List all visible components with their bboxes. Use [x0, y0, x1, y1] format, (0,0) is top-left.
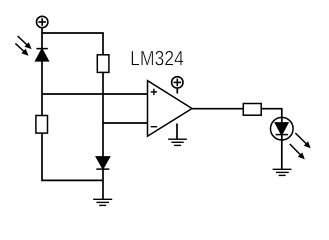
ground (op-amp) [168, 124, 187, 146]
wire R1 to bottom rail [42, 133, 103, 180]
op-amp - input marker [151, 126, 157, 128]
wire node A to op-amp + input [42, 93, 148, 95]
op-amp U1 LM324 [148, 81, 193, 137]
ground (below D2) [93, 199, 112, 205]
wire R3 to LED [261, 109, 282, 118]
resistor R3 [243, 104, 261, 116]
wire D2 to ground [102, 169, 104, 199]
wire from V+ to photodiode [41, 28, 43, 49]
resistor R2 [97, 55, 109, 73]
power supply V+ (left) [37, 16, 48, 27]
light arrow out of D3 (lower) [290, 144, 305, 159]
label LM324 [132, 51, 184, 66]
resistor R1 [36, 116, 48, 134]
diode D2 [96, 157, 109, 169]
power supply V+ (op-amp) [172, 77, 183, 94]
light arrow out of D3 (upper) [295, 133, 310, 148]
wire LED to ground [281, 140, 283, 169]
wire op-amp output to R3 [192, 108, 243, 110]
wire top rail to R2 [42, 33, 103, 55]
light arrow into D1 (lower) [15, 43, 28, 55]
LED D3 [271, 117, 294, 140]
photodiode D1 [36, 49, 48, 61]
light arrow into D1 (upper) [18, 36, 32, 49]
wire D1 to R1 [41, 61, 43, 116]
wire node B to op-amp - input [103, 122, 148, 124]
wire R2 to diode D2 [102, 72, 104, 157]
ground (below LED) [273, 169, 292, 175]
op-amp + input marker [151, 89, 157, 95]
